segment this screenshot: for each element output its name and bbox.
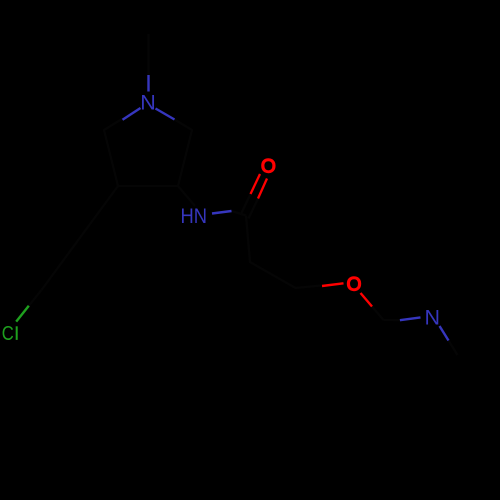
svg-text:N: N [425,306,441,330]
svg-text:HN: HN [181,204,208,228]
svg-text:N: N [140,91,156,115]
svg-text:O: O [347,275,362,296]
svg-text:C: C [2,323,14,345]
svg-text:O: O [261,157,276,178]
